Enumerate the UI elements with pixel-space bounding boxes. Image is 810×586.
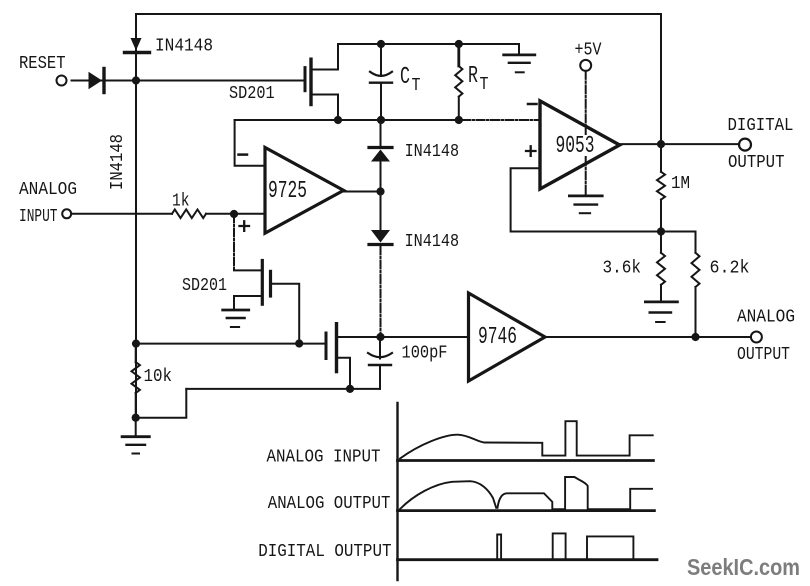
supply +5V [580,60,591,194]
node noninverting [230,210,238,218]
label plus 9053 [526,146,536,156]
label minus 9053 [528,103,537,106]
wire plus node down [233,214,235,270]
svg-text:INPUT: INPUT [19,207,58,227]
wire gate line [136,343,325,345]
node CT top [377,40,385,48]
node analog out divider [691,333,699,341]
transistor Q3 [326,324,381,389]
svg-text:9746: 9746 [478,324,517,351]
svg-text:SeekIC.com: SeekIC.com [687,554,800,580]
wire diode chain lower [380,246,382,337]
waveform baseline analog output [398,509,655,512]
label minus 9725 [239,153,248,156]
svg-text:OUTPUT: OUTPUT [728,153,785,173]
wire feedback top [235,119,462,121]
node digital out [657,140,665,148]
op-amp U3 9746 [469,293,546,381]
terminal ANALOG OUTPUT [751,332,762,343]
node 10k bottom [132,414,140,422]
wire reset input to gate [72,80,306,82]
waveform trace analog input [400,421,653,458]
svg-text:T: T [480,75,489,95]
ground Q2 source [223,296,249,327]
svg-text:ANALOG INPUT: ANALOG INPUT [267,447,381,467]
node 9725 output [376,187,384,195]
svg-text:+5V: +5V [575,41,602,61]
svg-text:3.6k: 3.6k [603,259,642,279]
svg-text:9725: 9725 [268,178,307,205]
svg-text:T: T [412,76,421,96]
resistor 1M [657,144,665,231]
label plus 9725 [240,221,250,231]
resistor 6.2k [692,253,700,337]
svg-text:DIGITAL OUTPUT: DIGITAL OUTPUT [258,542,391,562]
svg-text:IN4148: IN4148 [405,232,460,252]
svg-text:ANALOG: ANALOG [737,307,795,327]
ground 10k [122,418,149,454]
wire rail2 [338,43,519,45]
node ramp storage [376,333,384,341]
svg-text:OUTPUT: OUTPUT [737,345,790,365]
node RT top [455,40,463,48]
capacitor 100pF [368,337,392,389]
svg-text:6.2k: 6.2k [710,259,750,279]
svg-text:IN4148: IN4148 [108,134,128,190]
svg-text:1k: 1k [172,191,190,211]
wire analog output [545,336,751,338]
transistor SD201 Q1 [305,44,338,120]
wire 9053 output [620,143,739,145]
waveform trace digital output [497,533,633,558]
terminal DIGITAL OUTPUT [739,139,751,151]
wire analog mid [381,336,469,338]
wire analog input [71,213,265,215]
wire 10k link [136,389,187,418]
node RT bottom [455,116,463,124]
ground top [504,44,535,72]
ground 3.6k [645,302,677,322]
resistor 10k [132,344,140,418]
svg-text:IN4148: IN4148 [405,142,460,162]
svg-text:SD201: SD201 [182,276,227,296]
waveform axis [396,403,398,580]
resistor 1k [172,210,206,219]
op-amp U1 9725 [265,148,344,234]
node Q3 source [346,385,354,393]
transistor SD201 Q2 [234,261,299,344]
diode IN4148 top clamp [125,38,150,53]
wire divider branch [661,232,696,253]
node Q2 gate tap [295,339,303,347]
svg-text:1M: 1M [671,174,690,194]
wire output rail vertical [660,14,662,144]
op-amp U2 9053 [540,101,620,189]
node gate line left [132,340,140,348]
wire 9725 inverting lead [235,120,265,166]
diode reset (series) [89,69,105,93]
svg-text:IN4148: IN4148 [155,37,213,57]
svg-text:ANALOG OUTPUT: ANALOG OUTPUT [268,494,391,514]
node divider top [657,227,665,235]
svg-text:R: R [468,63,478,90]
terminal ANALOG INPUT [62,209,71,218]
svg-text:9053: 9053 [556,133,595,160]
resistor 3.6k [657,232,665,301]
ground 9053 [569,196,602,213]
wire reset rail vertical [135,14,137,418]
wire 9053 plus feedback [511,168,661,231]
svg-text:100pF: 100pF [402,344,448,364]
diode IN4148 down [369,230,392,245]
wire 9725 output [344,191,381,193]
node Q1 source [334,116,342,124]
capacitor CT [370,44,392,120]
wire top rail [136,13,661,15]
node CT bottom [377,116,385,124]
waveform trace analog output [400,477,652,509]
diode IN4148 up (to ramp node) [369,120,392,230]
resistor RT [455,44,462,120]
svg-text:10k: 10k [144,367,173,387]
svg-text:C: C [400,64,410,91]
wire bottom link [186,388,380,390]
svg-text:DIGITAL: DIGITAL [728,116,794,136]
svg-text:ANALOG: ANALOG [19,180,77,200]
waveform baseline digital output [398,558,658,561]
terminal RESET [57,76,67,86]
waveform baseline analog input [398,459,654,462]
node reset junction [132,76,140,84]
svg-text:SD201: SD201 [229,84,275,104]
svg-text:RESET: RESET [19,54,66,74]
